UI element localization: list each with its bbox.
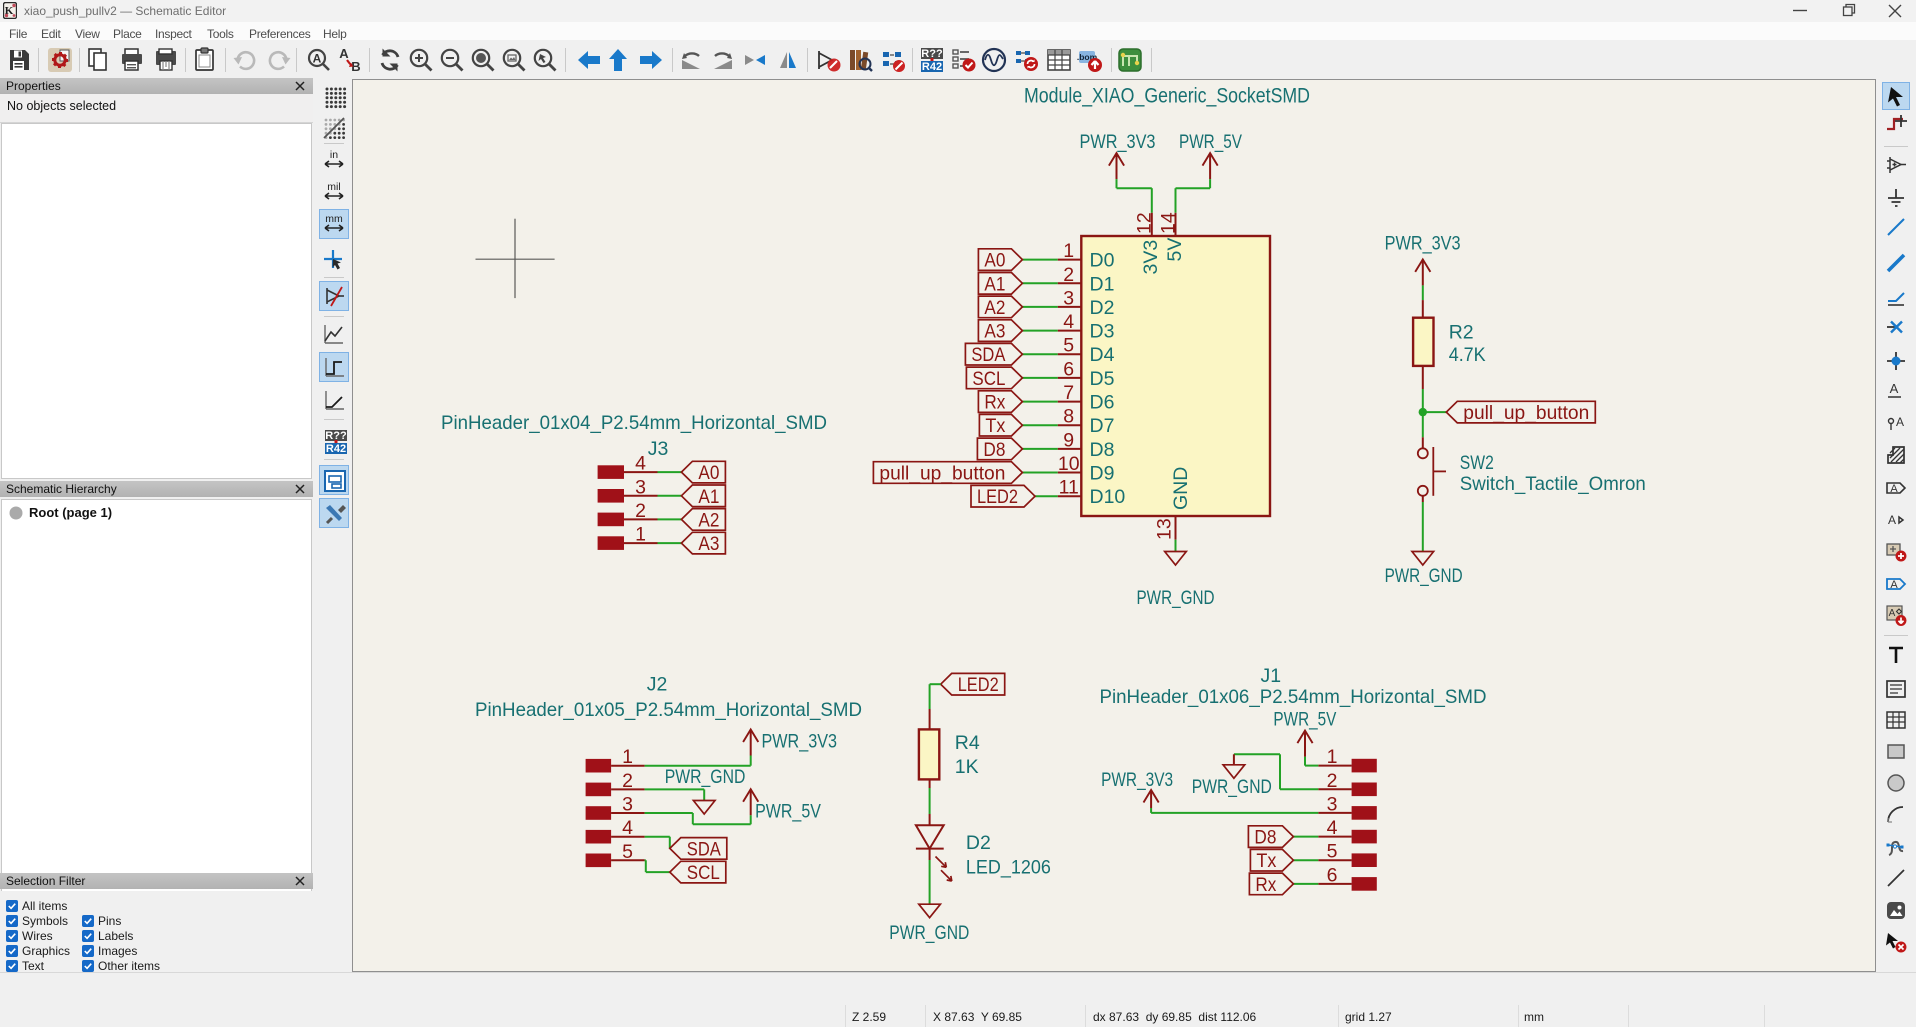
svg-text:Module_XIAO_Generic_SocketSMD: Module_XIAO_Generic_SocketSMD: [1024, 84, 1310, 108]
svg-text:D9: D9: [1090, 463, 1115, 485]
svg-text:1: 1: [1327, 746, 1338, 768]
svg-text:D10: D10: [1090, 486, 1126, 508]
svg-text:2: 2: [622, 770, 633, 792]
svg-text:8: 8: [1063, 406, 1074, 428]
svg-text:LED_1206: LED_1206: [966, 856, 1051, 878]
svg-text:D5: D5: [1090, 368, 1115, 390]
svg-text:A2: A2: [984, 297, 1005, 319]
svg-text:6: 6: [1063, 358, 1074, 380]
svg-text:A3: A3: [984, 321, 1005, 343]
svg-text:A: A: [1889, 608, 1896, 619]
svg-text:5: 5: [622, 841, 633, 863]
svg-text:A: A: [1888, 513, 1896, 527]
svg-text:PWR_GND: PWR_GND: [1192, 776, 1272, 798]
svg-text:PWR_3V3: PWR_3V3: [1385, 233, 1461, 255]
svg-text:Tx: Tx: [1256, 850, 1276, 872]
svg-text:4: 4: [622, 817, 633, 839]
svg-text:A1: A1: [698, 486, 719, 508]
svg-text:R4: R4: [955, 732, 980, 754]
svg-text:D7: D7: [1090, 415, 1115, 437]
svg-text:SDA: SDA: [971, 344, 1005, 366]
svg-text:3: 3: [635, 476, 646, 498]
svg-text:PWR_GND: PWR_GND: [1137, 587, 1215, 609]
svg-text:2: 2: [635, 500, 646, 522]
svg-text:A: A: [1890, 381, 1899, 396]
svg-text:PWR_5V: PWR_5V: [1273, 709, 1336, 731]
svg-text:2: 2: [1063, 264, 1074, 286]
svg-text:7: 7: [1063, 382, 1074, 404]
svg-text:PinHeader_01x06_P2.54mm_Horizo: PinHeader_01x06_P2.54mm_Horizontal_SMD: [1100, 686, 1487, 708]
svg-text:R2: R2: [1449, 321, 1474, 343]
svg-text:SCL: SCL: [687, 862, 720, 884]
svg-text:A: A: [1890, 579, 1898, 591]
svg-text:11: 11: [1059, 477, 1079, 499]
svg-text:PinHeader_01x04_P2.54mm_Horizo: PinHeader_01x04_P2.54mm_Horizontal_SMD: [441, 412, 827, 434]
svg-text:R42: R42: [922, 61, 942, 73]
svg-text:1: 1: [1063, 240, 1074, 262]
svg-text:PinHeader_01x05_P2.54mm_Horizo: PinHeader_01x05_P2.54mm_Horizontal_SMD: [475, 699, 862, 721]
svg-text:SCL: SCL: [972, 368, 1005, 390]
svg-text:LED2: LED2: [977, 486, 1018, 508]
svg-text:PWR_GND: PWR_GND: [1385, 565, 1463, 587]
svg-text:pull_up_button: pull_up_button: [1463, 402, 1589, 424]
svg-text:PWR_3V3: PWR_3V3: [1080, 131, 1156, 153]
svg-text:5V: 5V: [1164, 238, 1186, 262]
svg-text:2: 2: [1327, 770, 1338, 792]
svg-text:J2: J2: [647, 674, 668, 696]
svg-text:in: in: [329, 149, 337, 161]
svg-text:pull_up_button: pull_up_button: [879, 463, 1005, 485]
svg-text:1: 1: [635, 524, 646, 546]
svg-text:D4: D4: [1090, 344, 1115, 366]
svg-text:PWR_GND: PWR_GND: [889, 922, 969, 944]
svg-text:A: A: [1890, 483, 1898, 495]
svg-text:Rx: Rx: [1255, 874, 1276, 896]
svg-text:3: 3: [1327, 793, 1338, 815]
svg-text:9: 9: [1063, 429, 1074, 451]
svg-text:SDA: SDA: [687, 838, 721, 860]
svg-text:SW2: SW2: [1460, 452, 1494, 474]
svg-text:1: 1: [622, 746, 633, 768]
svg-text:R42: R42: [325, 443, 345, 455]
svg-text:A: A: [313, 52, 322, 66]
svg-text:4: 4: [1327, 817, 1338, 839]
svg-text:A: A: [1896, 415, 1904, 429]
svg-text:D2: D2: [966, 832, 991, 854]
svg-text:1K: 1K: [955, 756, 979, 778]
svg-text:J1: J1: [1260, 665, 1281, 687]
svg-text:3V3: 3V3: [1140, 240, 1162, 275]
svg-text:LED2: LED2: [958, 674, 999, 696]
svg-text:mm: mm: [325, 213, 343, 225]
svg-text:10: 10: [1058, 453, 1080, 475]
svg-text:4: 4: [1063, 311, 1074, 333]
svg-text:Rx: Rx: [984, 392, 1005, 414]
svg-text:D6: D6: [1090, 392, 1115, 414]
svg-text:Switch_Tactile_Omron: Switch_Tactile_Omron: [1460, 473, 1646, 495]
svg-text:PWR_5V: PWR_5V: [1179, 131, 1242, 153]
svg-text:14: 14: [1158, 212, 1180, 234]
svg-text:6: 6: [1327, 864, 1338, 886]
svg-text:A3: A3: [698, 533, 719, 555]
svg-text:A1: A1: [984, 273, 1005, 295]
svg-text:3: 3: [622, 794, 633, 816]
svg-text:PWR_3V3: PWR_3V3: [1101, 769, 1173, 791]
svg-text:Tx: Tx: [985, 415, 1005, 437]
svg-text:A2: A2: [698, 509, 719, 531]
svg-text:A: A: [339, 46, 349, 61]
svg-text:PWR_3V3: PWR_3V3: [762, 731, 838, 753]
svg-text:D1: D1: [1090, 273, 1115, 295]
svg-text:5: 5: [1327, 841, 1338, 863]
svg-text:A0: A0: [984, 250, 1005, 272]
svg-text:3: 3: [1063, 287, 1074, 309]
svg-text:GND: GND: [1170, 467, 1192, 510]
svg-text:D3: D3: [1090, 321, 1115, 343]
svg-text:12: 12: [1134, 212, 1156, 234]
svg-text:A0: A0: [698, 462, 719, 484]
svg-text:D8: D8: [1254, 827, 1276, 849]
svg-text:D0: D0: [1090, 250, 1115, 272]
svg-text:4.7K: 4.7K: [1449, 344, 1486, 366]
svg-text:J3: J3: [648, 438, 669, 460]
svg-text:5: 5: [1063, 335, 1074, 357]
svg-text:D8: D8: [1090, 439, 1115, 461]
svg-text:D2: D2: [1090, 297, 1115, 319]
svg-text:13: 13: [1154, 518, 1176, 540]
svg-text:4: 4: [635, 453, 646, 475]
svg-text:PWR_5V: PWR_5V: [755, 801, 821, 823]
svg-text:D8: D8: [983, 439, 1005, 461]
svg-text:PWR_GND: PWR_GND: [665, 766, 746, 788]
svg-text:mil: mil: [327, 181, 340, 193]
